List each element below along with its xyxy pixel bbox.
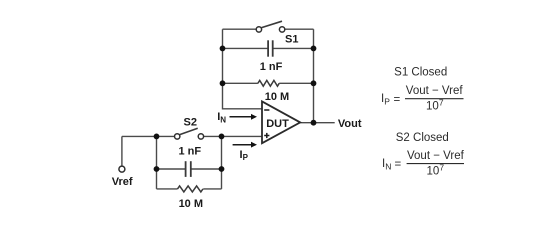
svg-text:10 M: 10 M — [179, 198, 203, 210]
svg-text:1 nF: 1 nF — [260, 61, 283, 73]
svg-text:=: = — [394, 94, 401, 106]
svg-text:Vout − Vref: Vout − Vref — [407, 150, 465, 162]
svg-text:S2: S2 — [184, 117, 197, 129]
svg-text:10 M: 10 M — [265, 91, 289, 103]
svg-text:Vout: Vout — [338, 118, 362, 130]
svg-text:S2 Closed: S2 Closed — [396, 132, 449, 144]
svg-text:S1: S1 — [285, 34, 298, 46]
svg-text:1 nF: 1 nF — [178, 146, 201, 158]
svg-text:Vout − Vref: Vout − Vref — [406, 85, 464, 97]
svg-text:DUT: DUT — [266, 118, 289, 130]
svg-text:Vref: Vref — [112, 176, 133, 188]
svg-text:S1 Closed: S1 Closed — [394, 66, 447, 78]
svg-text:=: = — [395, 159, 402, 171]
